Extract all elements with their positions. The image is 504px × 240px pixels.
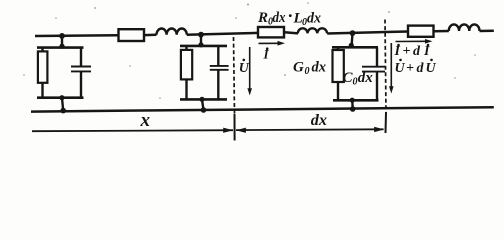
- arrow current I+dI: [396, 40, 427, 42]
- junction dot shunt 3 rail bottom: [350, 98, 355, 103]
- resistor series section 3: [408, 26, 434, 37]
- junction dot shunt 1 rail top: [59, 44, 64, 49]
- wire shunt 1 capacitor lead top: [80, 48, 82, 67]
- wire shunt 2 bottom rail: [180, 98, 227, 101]
- junction dot shunt 2 rail top: [198, 42, 203, 47]
- svg-text:U: U: [395, 61, 406, 76]
- dimension arrowhead x right: [223, 128, 233, 133]
- wire shunt 1 resistor lead top: [41, 48, 43, 52]
- wire top conductor segment 5: [327, 32, 407, 34]
- wire shunt stub 1 bottom: [62, 98, 63, 111]
- junction dot node 2 top: [198, 32, 204, 38]
- svg-text:d: d: [413, 44, 421, 59]
- svg-text:x: x: [140, 110, 151, 131]
- arrow current I: [259, 42, 280, 44]
- node boundary dashed line at x: [234, 37, 235, 114]
- resistor G0dx shunt section 3: [333, 50, 344, 82]
- wire shunt 3 capacitor lead bottom: [376, 72, 378, 101]
- junction dot node 3 top: [350, 30, 356, 36]
- junction dot node 3 bottom: [350, 106, 356, 112]
- svg-text:dx: dx: [311, 112, 327, 129]
- wire top conductor segment 1: [35, 34, 118, 37]
- junction dot shunt 3 rail top: [349, 43, 354, 48]
- svg-text:U: U: [426, 61, 437, 76]
- wire shunt stub 2 top: [200, 35, 202, 46]
- wire shunt 2 capacitor lead top: [217, 46, 219, 66]
- junction dot node 1 bottom: [60, 108, 66, 114]
- wire shunt 3 bottom rail: [333, 99, 379, 102]
- dimension arrowhead dx left: [236, 128, 246, 133]
- wire bottom conductor: [31, 107, 494, 111]
- wire shunt 1 capacitor lead bottom: [80, 71, 82, 97]
- scan speckles (noise): [23, 2, 476, 99]
- svg-text:+: +: [406, 61, 414, 76]
- wire shunt 2 resistor lead bottom: [185, 79, 187, 99]
- resistor series section 1: [119, 29, 145, 41]
- capacitor C0dx shunt section 3: [362, 67, 385, 72]
- dimension arrowhead dx right: [374, 127, 384, 132]
- junction dot shunt 2 rail bottom: [199, 97, 204, 102]
- wire shunt stub 3 bottom: [351, 100, 354, 109]
- junction dot node 1 top: [59, 33, 65, 39]
- inductor L0dx: [298, 28, 327, 33]
- wire shunt 1 resistor lead bottom: [41, 83, 43, 98]
- resistor R0dx: [258, 27, 284, 37]
- svg-text:+: +: [403, 44, 411, 59]
- wire shunt stub 1 top: [61, 36, 63, 48]
- svg-text:dx: dx: [273, 10, 286, 26]
- wire shunt 2 capacitor lead bottom: [217, 70, 219, 100]
- svg-text:0: 0: [305, 66, 310, 77]
- svg-text:G: G: [293, 59, 304, 75]
- wire top conductor segment 3: [187, 33, 258, 35]
- svg-text:0: 0: [353, 76, 358, 87]
- multiplication dot between labels: [289, 14, 292, 17]
- wire shunt 1 bottom rail: [37, 96, 84, 99]
- dimension line dx: [236, 128, 384, 131]
- inductor series section 1: [157, 28, 187, 34]
- svg-text:R: R: [257, 10, 268, 26]
- capacitor shunt section 2: [210, 66, 229, 70]
- wire top conductor segment 4: [285, 32, 299, 33]
- svg-text:U: U: [239, 61, 250, 76]
- arrow voltage U+dU down: [390, 43, 392, 88]
- wire shunt 2 resistor lead top: [185, 46, 187, 50]
- wire shunt 2 top rail: [180, 45, 227, 48]
- svg-text:dx: dx: [312, 59, 327, 75]
- resistor shunt section 2: [181, 50, 192, 80]
- svg-text:dx: dx: [307, 11, 321, 27]
- wire shunt 3 resistor lead bottom: [337, 82, 339, 100]
- junction dot node 2 bottom: [201, 107, 207, 113]
- wire top conductor segment 7: [480, 30, 494, 33]
- junction dot shunt 1 rail bottom: [59, 95, 64, 100]
- wire shunt 3 capacitor lead top: [376, 47, 378, 66]
- svg-text:d: d: [417, 61, 425, 76]
- svg-text:I: I: [394, 44, 401, 59]
- svg-text:I: I: [423, 44, 430, 59]
- wire shunt 3 top rail: [332, 46, 378, 49]
- arrow voltage U down: [249, 47, 251, 90]
- resistor shunt section 1: [38, 51, 48, 82]
- wire shunt stub 2 bottom: [202, 99, 204, 110]
- wire shunt stub 3 top: [352, 33, 353, 47]
- capacitor shunt section 1: [71, 67, 91, 72]
- wire shunt 3 resistor lead top: [337, 47, 339, 50]
- wire top conductor segment 2: [145, 34, 157, 37]
- node boundary dashed line at x+dx: [385, 20, 386, 113]
- dimension line x: [32, 130, 233, 131]
- inductor series section 3: [449, 24, 480, 31]
- svg-text:dx: dx: [358, 70, 374, 86]
- wire shunt 1 top rail: [37, 46, 84, 49]
- wire top conductor segment 6: [434, 30, 449, 33]
